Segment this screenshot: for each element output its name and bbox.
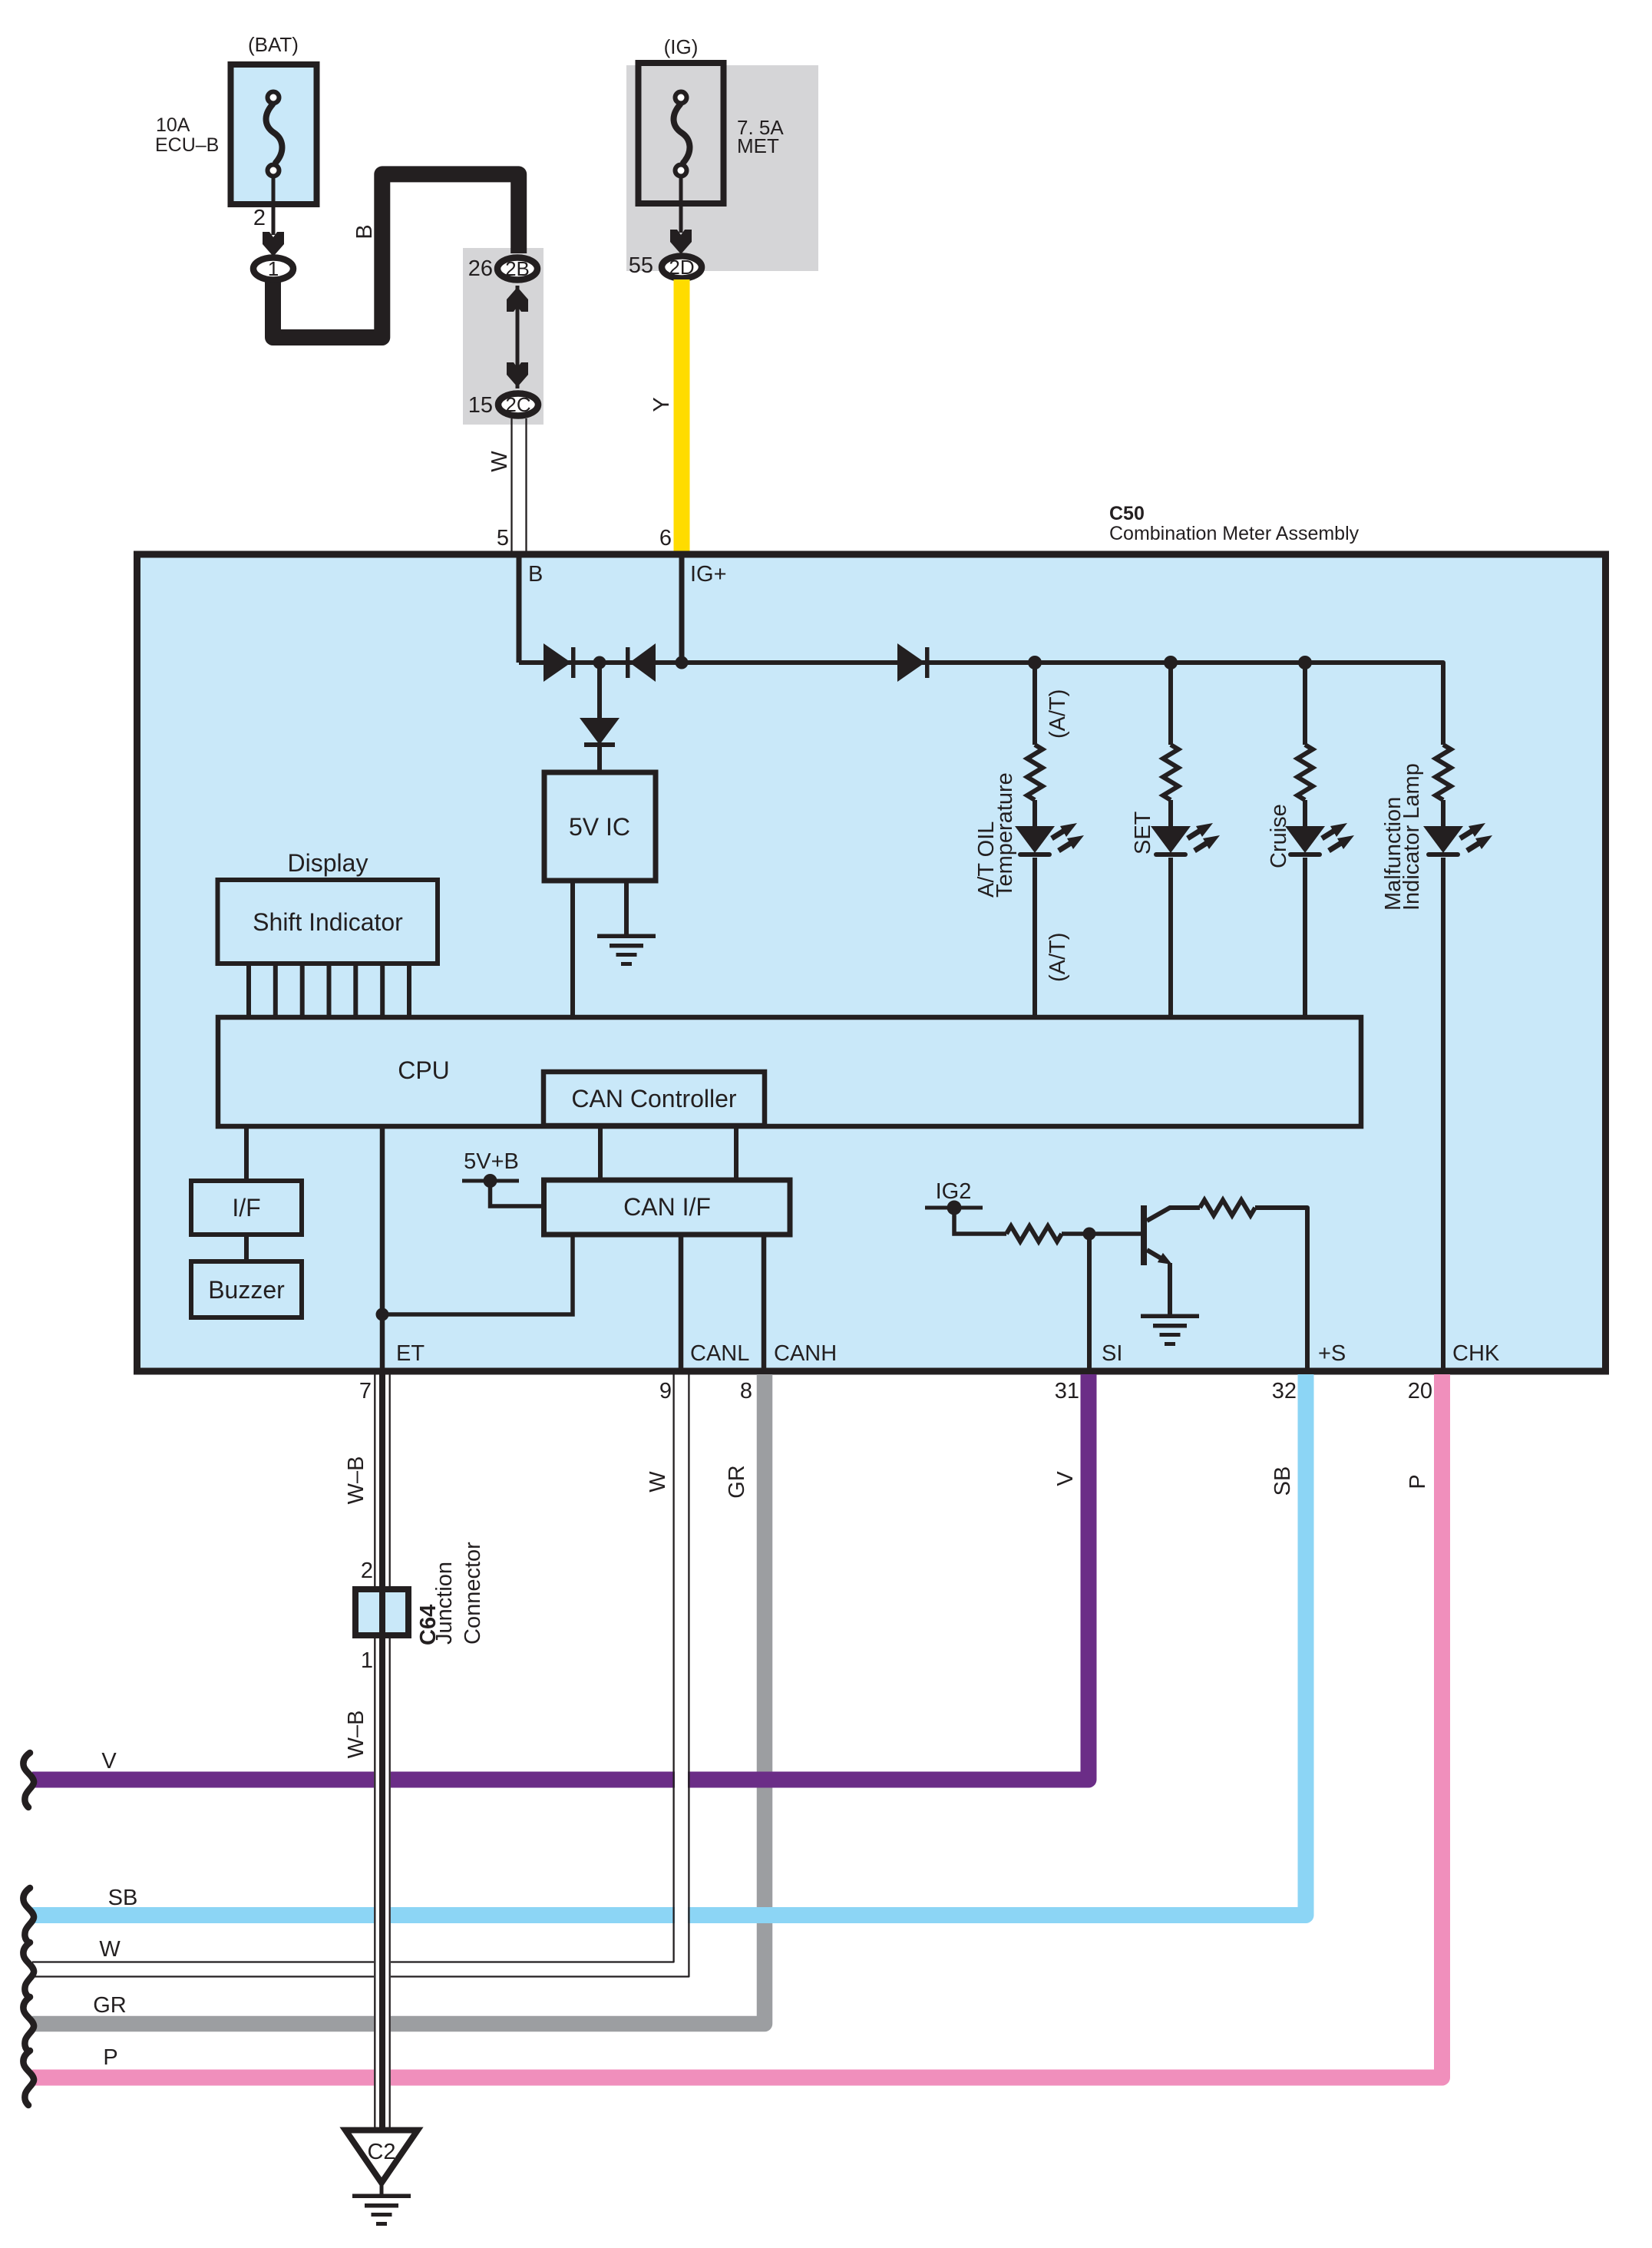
wire ET from CPU: [380, 1126, 385, 1368]
wire break squiggle V: [23, 1753, 34, 1807]
double arrow between 2B and 2C: [516, 286, 520, 388]
wire J1 to diode D3: [597, 663, 602, 718]
wire break squiggle SB: [23, 1888, 34, 1942]
svg-text:(BAT): (BAT): [248, 33, 299, 56]
svg-text:MET: MET: [737, 134, 779, 157]
svg-text:ET: ET: [396, 1341, 425, 1366]
resistor base: [1006, 1226, 1062, 1241]
svg-text:55: 55: [629, 253, 653, 278]
svg-text:V: V: [1053, 1471, 1078, 1486]
wire V from SI pin 31: [32, 1374, 1089, 1780]
wire emitter to ground: [1168, 1263, 1172, 1314]
wire Y yellow ignition feed: [674, 279, 690, 555]
svg-text:31: 31: [1055, 1379, 1079, 1403]
svg-text:W: W: [99, 1937, 121, 1962]
CAN controller box: [544, 1072, 765, 1126]
SET lamp branch: [1168, 663, 1173, 745]
svg-text:V: V: [101, 1749, 117, 1774]
svg-text:CAN Controller: CAN Controller: [571, 1085, 737, 1112]
wire power rail to CHK: [519, 663, 1443, 745]
svg-text:CANH: CANH: [774, 1341, 837, 1366]
svg-text:W–B: W–B: [344, 1711, 368, 1759]
node J1: [593, 656, 606, 669]
wire CANL stub: [679, 1235, 684, 1368]
svg-text:10A: 10A: [156, 114, 190, 136]
svg-text:5V IC: 5V IC: [569, 813, 630, 841]
svg-text:C50: C50: [1109, 503, 1145, 524]
svg-text:SB: SB: [1270, 1466, 1295, 1496]
svg-text:IG+: IG+: [690, 562, 727, 587]
diode D3: [580, 718, 619, 745]
svg-text:Cruise: Cruise: [1267, 804, 1291, 868]
wire 5V IC to ground: [624, 881, 629, 935]
svg-text:SET: SET: [1131, 811, 1155, 855]
wire SB from +S pin 32: [32, 1374, 1306, 1916]
terminal 2D oval: [662, 256, 702, 279]
C50 combination meter assembly box: [137, 554, 1606, 1371]
svg-text:IG2: IG2: [936, 1179, 972, 1204]
wire P from CHK pin 20: [32, 1374, 1442, 2078]
svg-text:(A/T): (A/T): [1046, 689, 1070, 739]
malfunction indicator lamp branch: [1436, 745, 1451, 800]
svg-text:Shift Indicator: Shift Indicator: [253, 908, 403, 936]
transistor Q1: [1141, 1205, 1147, 1265]
resistor collector: [1200, 1200, 1255, 1215]
node J3: [1028, 656, 1042, 669]
svg-text:SB: SB: [108, 1886, 138, 1910]
svg-text:ECU–B: ECU–B: [155, 134, 219, 156]
wire break squiggle W: [23, 1942, 34, 1997]
svg-text:Y: Y: [649, 397, 674, 412]
svg-text:1: 1: [361, 1648, 373, 1673]
buzzer box: [191, 1261, 302, 1317]
svg-text:Display: Display: [288, 849, 368, 877]
node J4: [1164, 656, 1178, 669]
wire W from CANL pin 9: [32, 1375, 682, 1969]
wire I/F to buzzer: [244, 1235, 249, 1261]
node J2: [676, 656, 689, 669]
wire fuse IG to 2D: [679, 175, 683, 233]
svg-text:15: 15: [468, 393, 493, 418]
connector block 2B/2C gray background: [463, 248, 544, 425]
svg-text:+S: +S: [1318, 1341, 1346, 1366]
svg-text:(IG): (IG): [664, 35, 699, 58]
Cruise lamp branch: [1303, 663, 1307, 745]
svg-text:2B: 2B: [505, 257, 530, 280]
svg-text:32: 32: [1272, 1379, 1297, 1403]
CPU box: [218, 1017, 1361, 1126]
wire SI: [1087, 1234, 1092, 1368]
svg-text:Buzzer: Buzzer: [208, 1276, 285, 1304]
svg-text:CAN I/F: CAN I/F: [623, 1193, 711, 1221]
fuse 10A ECU-B (BAT) box: [231, 64, 317, 204]
wire CHK vertical: [1441, 858, 1445, 1368]
junction 2B oval: [497, 258, 537, 280]
svg-text:CHK: CHK: [1452, 1341, 1500, 1366]
ground under 5V IC: [597, 934, 656, 967]
svg-text:2D: 2D: [669, 256, 694, 279]
node J5: [1298, 656, 1312, 669]
svg-text:Combination Meter Assembly: Combination Meter Assembly: [1109, 523, 1360, 544]
display bus comb wires: [246, 961, 251, 1017]
svg-text:20: 20: [1408, 1379, 1432, 1403]
wire IG2 to base resistor: [954, 1208, 1006, 1234]
svg-text:5V+B: 5V+B: [464, 1149, 519, 1174]
svg-text:6: 6: [659, 526, 672, 550]
svg-text:1: 1: [268, 257, 279, 280]
wire break squiggle GR: [23, 1997, 34, 2051]
svg-text:B: B: [352, 224, 377, 239]
svg-text:5: 5: [497, 526, 509, 550]
terminal 1 oval: [253, 258, 293, 280]
svg-text:P: P: [1406, 1474, 1430, 1489]
junction connector C64: [355, 1589, 408, 1635]
wire 5V IC to CPU: [570, 881, 575, 1017]
svg-text:7: 7: [359, 1379, 372, 1403]
shift indicator box: [218, 880, 438, 964]
node ET junction: [376, 1308, 389, 1321]
svg-text:W–B: W–B: [344, 1456, 368, 1505]
ground under transistor: [1141, 1314, 1199, 1347]
wire +S: [1305, 1208, 1307, 1368]
svg-text:2C: 2C: [505, 393, 530, 416]
junction 2C oval: [498, 394, 538, 416]
diode D4: [897, 643, 925, 682]
wire fuse BAT to terminal 1: [272, 175, 276, 235]
A/T oil temperature lamp branch: [1032, 663, 1037, 745]
wire W from 2C to pin 5: [510, 418, 512, 556]
svg-text:B: B: [528, 562, 543, 587]
diode D2: [626, 647, 630, 678]
terminal B stub inside box: [517, 557, 522, 663]
svg-text:2: 2: [361, 1559, 373, 1583]
wire D3 to 5V IC: [597, 747, 602, 772]
svg-text:GR: GR: [725, 1465, 749, 1499]
wire W-B ET ground wire: [374, 1375, 391, 2128]
svg-text:9: 9: [659, 1379, 672, 1403]
wire CPU to I/F: [244, 1126, 249, 1181]
terminal IG+ stub inside box: [679, 557, 685, 663]
diode D1: [544, 643, 571, 682]
5V IC box: [544, 772, 656, 881]
CAN I/F box: [544, 1180, 791, 1235]
svg-text:P: P: [103, 2045, 117, 2070]
svg-text:GR: GR: [93, 1993, 127, 2018]
svg-text:CPU: CPU: [398, 1056, 450, 1084]
svg-text:26: 26: [468, 256, 493, 281]
ground symbol C2: [352, 2194, 411, 2227]
svg-text:W: W: [646, 1471, 670, 1493]
wire CANH stub: [762, 1235, 767, 1368]
svg-text:2: 2: [253, 206, 266, 230]
fuse IG gray background: [626, 65, 818, 271]
svg-text:8: 8: [740, 1379, 752, 1403]
fuse 7.5A MET (IG) box: [639, 63, 724, 203]
svg-text:I/F: I/F: [232, 1194, 260, 1222]
svg-text:W: W: [487, 451, 512, 472]
wire ET junction to CAN I/F: [382, 1235, 573, 1314]
wire break squiggle P: [23, 2051, 34, 2105]
wire GR from CANH pin 8: [32, 1374, 765, 2024]
ground connector C2: [345, 2131, 418, 2184]
I/F box: [191, 1181, 302, 1235]
svg-text:CANL: CANL: [690, 1341, 749, 1366]
wire B thick battery feed: [273, 174, 519, 338]
svg-text:(A/T): (A/T): [1046, 933, 1070, 982]
wires CAN controller to CAN I/F: [598, 1126, 603, 1180]
svg-text:SI: SI: [1102, 1341, 1122, 1366]
svg-text:C2: C2: [367, 2140, 395, 2164]
node SI junction: [1083, 1228, 1096, 1241]
